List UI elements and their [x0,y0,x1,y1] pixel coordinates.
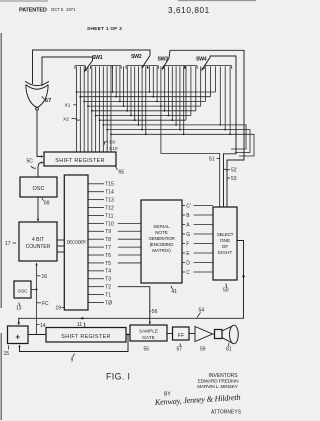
label 13 [16,303,22,312]
svg-text:T2: T2 [105,285,111,291]
svg-text:ATTORNEYS: ATTORNEYS [211,410,242,416]
svg-text:15: 15 [4,351,10,357]
svg-text:OSC: OSC [18,289,29,294]
svg-text:T1: T1 [105,292,111,298]
switch SW2 (rotary selector) [111,54,150,69]
header: patent number [168,6,210,15]
svg-text:4 BIT: 4 BIT [32,237,44,243]
junction dots: SW3 columns onto X rows [149,91,185,135]
label 5C [27,159,37,169]
junction dots: SW1 columns onto X rows [76,91,112,135]
serial note generator 41 (encoding matrix) [141,200,182,283]
label 55 [144,347,150,353]
svg-text:GENERATOR: GENERATOR [149,236,176,241]
svg-text:ONE: ONE [220,238,230,243]
wires: SW3 contact columns [150,66,184,134]
selector 50 (select one of eight) [213,207,237,280]
svg-text:(ENCODING: (ENCODING [150,242,174,247]
svg-text:16: 16 [42,274,48,280]
svg-text:19: 19 [56,306,62,312]
svg-text:9: 9 [71,358,74,364]
svg-text:56: 56 [152,309,158,315]
svg-text:T4: T4 [105,269,111,275]
label 61 [226,343,232,353]
wire 54: selector output to adder [17,241,245,326]
svg-text:G: G [186,232,190,238]
svg-text:GATE: GATE [142,335,154,340]
svg-text:EDWARD FREDKIN: EDWARD FREDKIN [198,379,239,385]
junction: feedback tap [127,334,129,336]
wire: SW2 wiper to XOR input 1 (outer top bus) [33,50,151,84]
svg-text:TØ: TØ [105,300,112,306]
label 15 [4,346,10,358]
header: patented date [19,7,76,14]
svg-text:54: 54 [199,308,205,314]
svg-text:T15: T15 [105,182,114,188]
svg-text:X10: X10 [109,146,118,152]
flip-flop 57 [173,327,190,340]
labels and stubs T15-T0 (decoder outputs) [88,182,114,307]
oscillator OSC 69 [20,177,57,197]
svg-text:OSC: OSC [32,186,44,192]
svg-text:57: 57 [177,347,183,353]
svg-text:SHEET 1 OF 3: SHEET 1 OF 3 [87,26,122,32]
svg-text:5C: 5C [27,159,34,165]
label 53 [227,176,237,182]
svg-text:69: 69 [44,201,50,207]
svg-text:SELECT: SELECT [217,232,234,237]
svg-text:X2: X2 [63,117,69,123]
label 9 [71,354,75,364]
decoder 19 [64,175,88,310]
svg-text:59: 59 [200,347,206,353]
svg-text:MARVIN L. MINSKY: MARVIN L. MINSKY [197,384,238,390]
oscillator OSC 13 [14,281,31,298]
svg-text:SW3: SW3 [158,57,169,63]
svg-text:X9: X9 [109,140,115,146]
4-bit counter 17 [19,222,57,261]
svg-text:MATRIX): MATRIX) [152,248,171,253]
label 17 [5,241,16,247]
label 54 [197,308,204,318]
svg-text:SW2: SW2 [131,54,142,60]
wire 56: T2 output to sample gate [118,287,151,325]
wire X10 (matrix row to right wrap) [111,134,254,156]
wire: adder output to shift register 11 [28,334,46,336]
svg-text:41: 41 [172,289,178,295]
switch SW3 (rotary selector) [148,57,185,71]
wire X8 (matrix row to right wrap) [103,125,246,149]
wire: amplifier to speaker [213,333,215,335]
junction: oscillator 13 / clock chain [36,289,38,291]
svg-text:T13: T13 [105,198,114,204]
speaker 61 [215,325,239,344]
svg-text:OF: OF [222,244,229,249]
label 56 [150,309,158,315]
caption FIG. 1 [106,372,130,382]
shift register 11 [46,328,126,343]
svg-text:D: D [186,260,190,266]
label 41 [171,286,177,295]
wire: flip-flop to amplifier [189,333,195,335]
label 69 [42,198,50,207]
svg-text:T9: T9 [105,229,111,235]
wires X1-X7 (matrix rows ending at SW4 hairpins) [77,92,216,120]
svg-text:52: 52 [231,168,237,174]
svg-text:F: F [186,241,189,247]
svg-text:SAMPLE: SAMPLE [139,328,158,333]
header: sheet number [87,26,122,32]
svg-text:1971: 1971 [66,7,76,12]
wires: T10-T5 into serial note generator [118,223,141,263]
svg-text:T3: T3 [105,277,111,283]
label 57 [177,344,183,353]
svg-text:OCT: OCT [51,7,60,12]
label 52 [224,168,237,174]
svg-text:FC: FC [42,301,49,307]
svg-text:T14: T14 [105,190,114,196]
label 65 [116,167,125,176]
wire: SW3 wiper over top to right side (line 53 feed) [169,50,244,207]
label 14 [37,323,46,329]
svg-text:SW4: SW4 [196,57,207,63]
svg-text:SERIAL: SERIAL [153,224,170,229]
wire 9: feedback from shift register 11 to adder [18,335,128,352]
svg-text:61: 61 [226,347,232,353]
svg-text:T10: T10 [105,221,114,227]
svg-text:T11: T11 [105,213,113,219]
label 19 [56,306,65,312]
wires: X1-X10 risers from shift register 65 to SW1 contacts [77,66,111,152]
svg-text:SW1: SW1 [92,55,103,61]
op-amp-style XOR gate U67 (exclusive-or, points down) [25,81,49,110]
switch SW4 (rotary selector) [184,57,231,72]
svg-text:3,610,801: 3,610,801 [168,6,210,15]
label 16 [37,274,47,280]
svg-text:EIGHT: EIGHT [218,250,232,255]
wire: oscillator 69 to shift register 65 clock [38,161,44,177]
junction dots: SW2 columns onto X rows [112,91,147,135]
svg-text:X1: X1 [65,103,71,109]
svg-text:C': C' [186,203,191,209]
wire X9 (matrix row to right wrap) [107,130,250,153]
svg-text:55: 55 [144,347,150,353]
svg-text:13: 13 [16,306,22,312]
shift register 65 [44,152,116,166]
wire: shift register 11 output to sample gate [126,334,130,336]
label X9 [105,140,116,146]
svg-text:T5: T5 [105,261,111,267]
adder 15 (modulo-2 adder) [8,326,29,344]
wires: counter to decoder (4 bits) [57,240,64,252]
sample gate 55 [130,325,167,341]
svg-text:17: 17 [5,241,11,247]
svg-text:51: 51 [209,157,215,163]
label 50 [223,284,229,294]
junction dots: SW4 columns onto X8-X10 [219,124,231,135]
svg-text:F F: F F [178,333,184,339]
label 11 [77,322,85,328]
svg-text:11: 11 [77,322,82,328]
svg-text:50: 50 [223,288,229,294]
svg-text:14: 14 [40,323,46,329]
svg-text:DECODER: DECODER [67,239,86,244]
svg-text:PATENTED: PATENTED [19,8,47,14]
wire: counter bottom clock chain (16 / FC / 14) [35,263,37,335]
wires: SW4 contact columns [186,66,230,134]
svg-text:67: 67 [45,98,51,104]
svg-text:NOTE: NOTE [155,230,168,235]
svg-text:T12: T12 [105,205,114,211]
svg-text:SHIFT REGISTER: SHIFT REGISTER [55,158,104,164]
svg-text:T8: T8 [105,237,111,243]
label X2 [63,117,80,123]
label 67 [42,96,51,104]
label FC [37,301,49,307]
wires: SW2 contact columns [113,66,146,134]
wire: sample gate to flip-flop [167,333,173,335]
wire: oscillator 13 output [31,289,37,291]
label ATTORNEYS [211,410,242,416]
svg-text:FIG. I: FIG. I [106,372,130,382]
wires and labels: note outputs C' B A G F E D C [182,203,213,275]
label 51 [209,157,220,163]
switch SW1 (rotary selector) [75,55,113,72]
svg-text:INVENTORS: INVENTORS [208,373,238,379]
amplifier 59 [195,327,213,342]
svg-text:+: + [15,332,20,341]
label X10 [107,146,118,152]
wire: XOR output to shift register 65 input [37,110,44,157]
wire: SW4 wiper over top to right side (line 52 feed) [210,56,236,207]
wire 51: SW3 column down to select-one-of-eight [161,106,220,207]
svg-text:T6: T6 [105,253,111,259]
svg-text:65: 65 [119,170,125,176]
wire: oscillator 69 to counter clock [37,197,39,222]
label X1 [65,103,77,109]
svg-text:COUNTER: COUNTER [26,244,51,250]
inventors block [164,373,239,398]
svg-text:T7: T7 [105,245,111,251]
signature (attorneys) [154,393,241,407]
label 59 [200,347,206,353]
svg-text:53: 53 [231,176,237,182]
svg-text:SHIFT REGISTER: SHIFT REGISTER [61,334,110,340]
wire: SW1 wiper to XOR input 2 (inner top bus) [42,57,93,86]
svg-text:C: C [186,270,190,276]
